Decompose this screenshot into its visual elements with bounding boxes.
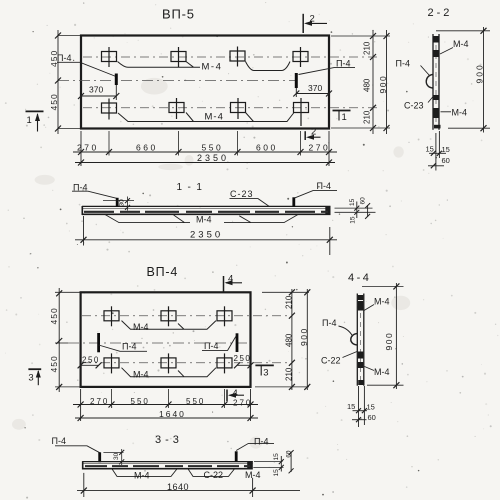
svg-text:30: 30 (119, 199, 126, 207)
recess 2 outline 3-3 (188, 469, 235, 477)
svg-text:210: 210 (285, 295, 294, 309)
dim 250 right VP-4 (234, 354, 254, 368)
svg-text:1-1: 1-1 (177, 182, 208, 193)
svg-text:М-4: М-4 (374, 297, 390, 307)
svg-text:480: 480 (363, 78, 372, 92)
dimension line 270/660/550/600/270 VP-5 (73, 143, 337, 156)
dimension line 900 right VP-4 (299, 289, 311, 390)
anchor M-4 row2 col1 (102, 99, 117, 120)
svg-text:15: 15 (426, 145, 434, 154)
extension lines 900 dim 2-2 (436, 31, 490, 128)
section marker 1 right (333, 111, 351, 124)
svg-text:М-4: М-4 (133, 322, 149, 332)
plate P-4 left bar VP-5 (115, 74, 118, 86)
section 1-1 slab inner plates (84, 211, 328, 213)
svg-text:1: 1 (27, 115, 32, 126)
label P-4 left VP-5 (57, 53, 116, 77)
extension lines 900 dim 4-4 (362, 286, 404, 385)
anchor M-4 row1 col1 (102, 47, 117, 67)
svg-text:60: 60 (442, 156, 450, 165)
label P-4 left VP-4 (99, 341, 147, 351)
leader M-4 row1 anchors 3-4 (246, 62, 291, 71)
label P-4 right 3-3 (236, 437, 274, 451)
svg-text:60: 60 (360, 197, 367, 205)
svg-text:270: 270 (309, 143, 331, 153)
dim 370 left VP-5 (78, 85, 119, 101)
section 4-4 panel bar (357, 294, 364, 386)
anchor M-4 row2 col2 (169, 98, 184, 119)
section marker 3 right (255, 365, 273, 378)
label S-23 2-2 (404, 96, 434, 111)
svg-text:4-4: 4-4 (348, 272, 371, 284)
label S-22 recess2 3-3 (204, 470, 224, 480)
leader M-4 row1 VP-4 (122, 321, 217, 330)
recess outline 1-1 (105, 215, 298, 223)
anchor M-4 row1 col1 VP-4 (104, 306, 119, 326)
label M-4 1-1 (196, 215, 212, 225)
dimension 1640 3-3 (77, 473, 300, 497)
svg-text:2: 2 (310, 14, 315, 25)
section marker 4 bottom (227, 388, 244, 401)
label M-4 recess1 3-3 (134, 471, 150, 481)
svg-text:900: 900 (378, 75, 388, 94)
svg-text:550: 550 (202, 143, 224, 153)
label M-4 right 3-3 (245, 470, 261, 480)
svg-text:15: 15 (273, 453, 280, 461)
svg-text:550: 550 (131, 397, 150, 406)
section 3-3 slab inner plates (85, 465, 250, 467)
dim 370 right VP-5 (293, 83, 332, 97)
anchor M-4 row2 col3 VP-4 (217, 353, 232, 373)
title section 3-3 (155, 434, 183, 446)
plate P-4 left bar 3-3 (98, 452, 101, 462)
dimension line 1640 VP-4 (75, 409, 258, 421)
dimension line 900 right VP-5 (378, 30, 390, 134)
plate P-4 left bar 1-1 (116, 198, 119, 207)
svg-text:270: 270 (90, 397, 109, 406)
svg-text:П-4: П-4 (336, 59, 350, 69)
svg-text:15: 15 (367, 403, 375, 412)
anchor M-4 row1 col2 (171, 47, 186, 67)
svg-text:ВП-4: ВП-4 (147, 265, 179, 279)
right thickness dims 1-1 (335, 197, 376, 224)
section 3-3 slab (82, 461, 252, 469)
label M-4 top 4-4 (364, 297, 390, 311)
label P-4 2-2 (396, 59, 430, 76)
svg-text:1640: 1640 (159, 409, 186, 419)
svg-text:15: 15 (442, 145, 450, 154)
plate P-4 right bar 3-3 (235, 451, 238, 461)
bottom thickness dims 2-2 (426, 131, 450, 171)
right thickness dims 3-3 (253, 450, 293, 476)
svg-text:30: 30 (113, 452, 120, 460)
dimension line 2350 VP-5 (75, 153, 335, 166)
section 2-2 panel bar (433, 34, 439, 130)
dimension line 450/450 left VP-5 (49, 30, 61, 134)
plate P-4 right bar VP-5 (295, 73, 298, 88)
dimension line 450/450 left VP-4 (49, 288, 62, 392)
svg-text:П-4: П-4 (254, 437, 268, 447)
extension lines right VP-5 (331, 36, 390, 128)
svg-text:1: 1 (342, 112, 347, 123)
svg-text:900: 900 (475, 63, 485, 83)
svg-text:450: 450 (49, 50, 59, 67)
svg-text:П-4: П-4 (122, 341, 136, 351)
dimension 900 4-4 (384, 283, 399, 389)
plate P-4 right bar VP-4 (236, 333, 239, 352)
svg-text:15: 15 (347, 402, 355, 411)
panel VP-4 outline (81, 292, 251, 387)
dim 30 at P-4 1-1 (103, 197, 134, 211)
svg-text:С-22: С-22 (204, 470, 224, 480)
anchor M-4 row1 col2 VP-4 (161, 306, 176, 326)
anchor M-4 row1 col3 VP-4 (217, 306, 232, 326)
label P-4 right VP-4 (202, 337, 236, 351)
title section 2-2 (428, 7, 453, 19)
svg-text:550: 550 (186, 397, 205, 406)
centerline mid P-4 VP-4 (68, 342, 251, 344)
section marker 2 top (303, 14, 327, 34)
svg-text:П-4: П-4 (52, 436, 66, 446)
label P-4 right VP-5 (299, 59, 356, 75)
leader M-4 row2 shelf (118, 113, 294, 122)
section 4-4 loop P-4 (351, 334, 358, 346)
section marker 1 left (26, 111, 44, 131)
centerline row2 VP-5 (83, 107, 377, 109)
plate P-4 left bar VP-4 (97, 333, 100, 352)
extension lines left VP-5 (58, 36, 81, 129)
section 2-2 loop P-4 (426, 75, 433, 89)
svg-text:900: 900 (299, 327, 309, 346)
dimension 900 2-2 (475, 27, 487, 133)
title VP-5 (162, 7, 195, 22)
anchor M-4 row1 col3 (230, 47, 245, 67)
label M-4 row2 VP-5 (205, 112, 224, 123)
svg-text:4: 4 (228, 274, 233, 285)
svg-text:М-4: М-4 (133, 369, 149, 379)
label P-4 left 1-1 (72, 182, 117, 198)
svg-text:4: 4 (233, 388, 238, 399)
plate P-4 right bar 1-1 (292, 197, 295, 207)
svg-text:900: 900 (384, 332, 394, 351)
svg-text:С-23: С-23 (230, 189, 254, 199)
svg-text:М-4: М-4 (196, 215, 212, 225)
svg-text:П-4: П-4 (204, 341, 218, 351)
label M-4 row2 VP-4 (133, 369, 149, 379)
svg-text:250: 250 (82, 356, 100, 365)
svg-text:450: 450 (49, 355, 59, 372)
label P-4 right 1-1 (294, 181, 337, 198)
centerline row2 VP-4 (82, 362, 288, 364)
svg-text:15: 15 (349, 216, 356, 224)
panel VP-5 outline (81, 36, 329, 129)
svg-text:П-4: П-4 (317, 181, 331, 191)
svg-text:370: 370 (308, 83, 322, 93)
section marker 2 bottom (305, 127, 320, 141)
label M-4 bottom 2-2 (441, 108, 468, 118)
svg-text:210: 210 (285, 367, 294, 381)
svg-text:П-4: П-4 (57, 53, 71, 63)
anchor M-4 row2 col4 (294, 98, 309, 126)
anchor M-4 row1 col4 (293, 47, 308, 67)
label S-22 4-4 (321, 352, 357, 366)
svg-text:250: 250 (234, 354, 252, 363)
svg-text:М-4: М-4 (202, 62, 223, 73)
anchor M-4 row2 col3 (231, 98, 246, 119)
section 2-2 anchor blobs (433, 36, 440, 128)
bottom thickness dims 4-4 (347, 386, 376, 427)
svg-text:2350: 2350 (190, 230, 223, 241)
anchor M-4 row2 col2 VP-4 (161, 353, 176, 373)
section 4-4 anchor blobs (358, 295, 365, 385)
dimension line 210/480/210 right VP-4 (285, 289, 295, 390)
svg-text:3: 3 (28, 372, 33, 383)
label M-4 bottom 4-4 (365, 367, 390, 378)
dim 30 at P-4 3-3 (103, 449, 124, 465)
svg-text:480: 480 (285, 333, 294, 347)
svg-text:М-4: М-4 (453, 39, 469, 49)
label M-4 top 2-2 (440, 39, 469, 54)
label M-4 row1 VP-5 (202, 62, 223, 73)
title section 1-1 (177, 182, 208, 193)
svg-text:ВП-5: ВП-5 (162, 7, 195, 22)
extension lines left VP-4 (55, 292, 81, 387)
svg-text:450: 450 (49, 93, 59, 110)
section marker 3 left (28, 369, 41, 385)
title section 4-4 (348, 272, 371, 284)
svg-text:3: 3 (263, 367, 268, 378)
centerline row1 VP-5 (83, 56, 377, 58)
title VP-4 (147, 265, 179, 279)
centerline mid P-4 VP-5 (58, 80, 296, 82)
svg-text:С-22: С-22 (321, 356, 341, 366)
svg-text:270: 270 (77, 143, 99, 153)
svg-text:С-23: С-23 (404, 101, 424, 111)
svg-text:210: 210 (363, 41, 372, 55)
dimension line 210/480/210 right VP-5 (363, 30, 377, 134)
svg-text:М-4: М-4 (374, 367, 390, 377)
svg-text:15: 15 (349, 198, 356, 206)
label S-23 1-1 (230, 189, 270, 206)
svg-text:3-3: 3-3 (155, 434, 183, 446)
svg-text:60: 60 (368, 413, 376, 422)
dim 250 left VP-4 (78, 356, 102, 369)
leader M-4 row2 VP-4 (122, 368, 217, 377)
svg-text:П-4: П-4 (322, 318, 336, 328)
section 1-1 slab (82, 206, 331, 215)
label P-4 left 3-3 (52, 436, 100, 453)
svg-text:1640: 1640 (167, 482, 189, 492)
svg-text:2: 2 (311, 127, 316, 138)
centerline row1 VP-4 (82, 315, 288, 317)
anchor M-4 row2 col1 VP-4 (104, 353, 119, 373)
section marker 4 top (224, 274, 243, 292)
recess 1 outline 3-3 (112, 469, 177, 477)
svg-text:600: 600 (256, 143, 278, 153)
svg-text:М-4: М-4 (134, 471, 150, 481)
label P-4 4-4 (322, 318, 353, 336)
svg-text:М-4: М-4 (452, 108, 468, 118)
svg-text:210: 210 (363, 110, 372, 124)
svg-text:660: 660 (136, 143, 158, 153)
svg-text:2350: 2350 (197, 153, 229, 163)
dimension line 270/550/550/270 VP-4 (73, 397, 258, 408)
svg-text:М-4: М-4 (205, 112, 224, 123)
extension lines bottom VP-4 (81, 389, 251, 421)
svg-text:450: 450 (49, 307, 59, 324)
extension lines right VP-4 (255, 292, 309, 387)
dimension 2350 1-1 (75, 216, 337, 255)
svg-text:2-2: 2-2 (428, 7, 453, 19)
label M-4 row1 VP-4 (133, 322, 149, 332)
extension lines bottom VP-5 (81, 131, 329, 166)
svg-text:370: 370 (89, 85, 103, 95)
svg-text:П-4: П-4 (396, 59, 410, 69)
svg-text:270: 270 (233, 399, 252, 408)
leader M-4 row1 anchors 1-2 (118, 62, 201, 68)
